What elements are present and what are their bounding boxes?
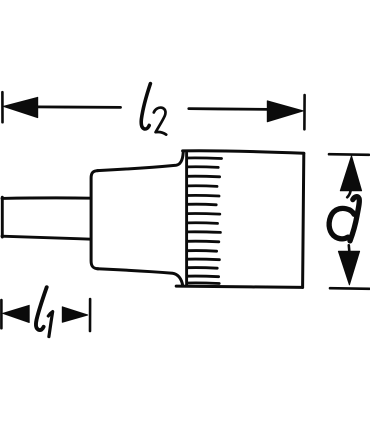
knurl tooth 8 xyxy=(187,221,217,224)
dimension d bottom arrow tail flick xyxy=(347,245,350,251)
knurl tooth 4 xyxy=(187,184,217,187)
dimension d top arrowhead xyxy=(340,156,361,191)
adapter body left edge with rounded corners xyxy=(91,171,98,269)
dimension l1 right extension tick xyxy=(89,299,92,331)
dimension l2 left extension tick xyxy=(1,92,4,122)
adapter body top edge with flare xyxy=(98,153,184,171)
dimension l2 right arrowhead xyxy=(267,101,303,122)
knurl tooth 7 xyxy=(187,212,219,215)
knurl tooth 1 xyxy=(187,156,221,159)
socket top edge xyxy=(183,151,304,153)
knurl tooth 3 xyxy=(187,175,219,178)
label d bowl xyxy=(329,208,354,238)
socket right edge xyxy=(303,153,304,287)
dimension d bottom arrowhead xyxy=(338,251,359,284)
label l2 letter ell xyxy=(141,84,150,129)
knurl tooth 10 xyxy=(187,240,218,243)
dimension d top arrow tail flick xyxy=(347,191,350,198)
dimension l2 right extension tick xyxy=(303,95,306,129)
knurl tooth 13 xyxy=(187,266,217,269)
dimension l1 right arrowhead xyxy=(62,307,87,323)
dimension d bottom extension tick xyxy=(330,287,370,290)
knurl left boundary line xyxy=(185,153,188,286)
dimension l1 left extension tick xyxy=(0,300,3,328)
knurl tooth 11 xyxy=(187,249,216,252)
knurl tooth 5 xyxy=(187,194,219,197)
dimension l2 left arrowhead xyxy=(3,97,37,117)
label l2 subscript 2 xyxy=(154,108,166,135)
bit shaft bottom edge xyxy=(2,236,91,239)
bit shaft left edge xyxy=(1,197,4,237)
knurl tooth 2 xyxy=(187,165,218,168)
dimension l2 line right segment xyxy=(189,107,269,111)
knurl tooth 14 xyxy=(187,275,218,278)
knurl tooth 12 xyxy=(187,258,219,261)
socket bottom edge xyxy=(176,286,302,287)
knurl tooth 15 xyxy=(187,281,219,284)
bit shaft top edge xyxy=(2,196,91,199)
label l1 subscript 1 xyxy=(48,312,52,337)
label d stem xyxy=(350,197,359,241)
label l1 letter ell xyxy=(36,287,47,330)
dimension l1 left arrowhead xyxy=(3,305,29,322)
dimension d top extension tick xyxy=(329,153,369,156)
dimension l2 line left segment xyxy=(36,106,121,109)
adapter body bottom edge with flare xyxy=(98,269,183,286)
knurl tooth 9 xyxy=(187,230,220,233)
knurl tooth 6 xyxy=(187,203,216,206)
